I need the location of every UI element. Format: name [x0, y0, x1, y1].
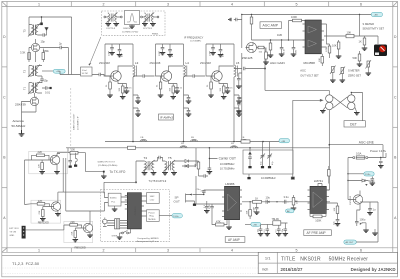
junction dots AGC rail	[241, 14, 360, 15]
svg-text:Arduino: Arduino	[133, 206, 137, 215]
resistor 22K (1b)	[39, 210, 44, 217]
svg-text:470u: 470u	[196, 189, 202, 191]
svg-text:10.6985MHz: 10.6985MHz	[261, 176, 276, 180]
resistor 100 gate	[257, 46, 266, 53]
coupling capacitor T4-T5	[158, 156, 166, 161]
wire det branch vertical	[195, 148, 197, 161]
capacitor 3u	[291, 40, 298, 56]
wire reg to supply pill	[159, 215, 172, 217]
resistor 10K boxed	[346, 30, 354, 37]
svg-text:Antenna: Antenna	[13, 119, 25, 123]
svg-text:10u: 10u	[266, 195, 271, 199]
trimmer pot (2)	[340, 67, 346, 83]
resistor 22K (2b)	[72, 231, 77, 238]
wire bias rail	[206, 44, 234, 76]
svg-text:10M15D: 10M15D	[123, 28, 132, 30]
ground T3	[45, 28, 49, 30]
wire vfo vertical	[24, 160, 26, 205]
junction dots power	[347, 157, 381, 181]
resistor 10K out	[247, 204, 252, 219]
ground detector right	[354, 108, 360, 115]
capacitor 0.022	[209, 203, 214, 211]
svg-text:Designed by JA2NKD: Designed by JA2NKD	[138, 237, 160, 240]
svg-text:3M: 3M	[296, 50, 298, 53]
supply decoupling column	[234, 80, 241, 142]
wire bias rail	[105, 44, 133, 76]
potentiometer VOL 10K	[291, 195, 299, 210]
svg-text:100u: 100u	[360, 218, 366, 222]
resistor 10K (IC left)	[332, 40, 341, 58]
net label pill +8B (RF)	[42, 69, 65, 73]
svg-text:L4: L4	[186, 61, 190, 65]
wires buffer2	[26, 211, 101, 240]
faint ruled lines below frame	[3, 268, 259, 273]
svg-text:AGC-LINE: AGC-LINE	[359, 140, 374, 144]
svg-text:2SC1815: 2SC1815	[350, 195, 352, 205]
svg-text:10K: 10K	[247, 210, 249, 214]
wire T4 input from PLL	[135, 161, 142, 183]
wires buffer1	[25, 192, 102, 218]
cross-quad wires	[329, 93, 362, 121]
svg-text:2SK125: 2SK125	[242, 56, 253, 60]
svg-text:FB801: FB801	[152, 33, 159, 35]
wires buffer	[25, 154, 61, 172]
svg-text:OUT VOLT SET: OUT VOLT SET	[300, 73, 319, 77]
ground carrier box left	[247, 174, 250, 179]
capacitor AGC source bypass 1	[236, 53, 242, 142]
capacitor 470u speaker out	[193, 189, 223, 195]
regulator U4 TA7805	[144, 210, 159, 222]
svg-text:(21.4MHz)-(23.4MHz): (21.4MHz)-(23.4MHz)	[98, 165, 118, 167]
svg-text:S METER: S METER	[348, 69, 360, 73]
svg-text:10K: 10K	[297, 200, 299, 204]
wire si5351 to mcu	[101, 192, 127, 211]
transformer T1	[23, 82, 43, 95]
svg-text:4: 4	[231, 248, 233, 252]
buffer subcircuit frame	[29, 151, 68, 174]
transformer T4	[142, 156, 158, 175]
capacitor 47P	[168, 44, 172, 54]
resistor 10K (below IC)	[319, 54, 324, 66]
svg-text:100P: 100P	[159, 50, 161, 56]
transistor Q2 2SK439 RF amp	[15, 93, 39, 107]
capacitor 220u	[365, 177, 375, 187]
svg-text:L3: L3	[135, 61, 139, 65]
resistor 100K feedback	[310, 210, 326, 223]
svg-text:S METER: S METER	[363, 22, 375, 26]
label box AGC AMP	[260, 22, 282, 29]
capacitor emitter	[226, 85, 230, 91]
svg-text:LM386: LM386	[225, 182, 235, 186]
svg-text:0.01: 0.01	[45, 91, 51, 95]
capacitor 100P	[211, 44, 215, 52]
grounds stage1	[107, 95, 113, 97]
supply decoupling column	[184, 80, 191, 142]
svg-text:FCZ73-9: FCZ73-9	[107, 28, 116, 30]
IF stage 3	[200, 44, 242, 142]
wire BFO injection	[291, 99, 323, 179]
zone numbers top	[38, 2, 362, 6]
svg-text:2SK439: 2SK439	[15, 103, 26, 107]
op-amp U1 MC4558	[303, 20, 325, 65]
svg-text:10.6985MHz: 10.6985MHz	[220, 162, 235, 166]
capacitor carrier bypass	[207, 166, 213, 174]
resistor 51	[109, 82, 112, 89]
transistor Q5 2SC2348	[212, 71, 222, 81]
net label pill +8B top right	[371, 12, 382, 16]
svg-text:FCZ73-9: FCZ73-9	[143, 28, 152, 30]
svg-text:3: 3	[167, 2, 169, 6]
connector J1 EXT VFO	[9, 226, 25, 239]
trimmer capacitor 47p (1)	[260, 152, 265, 168]
svg-text:50-54MHz: 50-54MHz	[12, 124, 26, 128]
capacitor 2p out	[40, 41, 69, 49]
resistor 680k	[42, 49, 49, 60]
junction dots top rail	[41, 16, 42, 17]
svg-text:Power 13.8v: Power 13.8v	[370, 149, 387, 153]
svg-text:L5: L5	[236, 61, 240, 65]
wires 1815	[348, 191, 378, 243]
transistor Q6 2SK125	[242, 42, 257, 60]
capacitor 0.01	[42, 86, 52, 94]
capacitor buffer decoupling a	[68, 154, 72, 168]
capacitor 10u coupling	[266, 195, 271, 204]
wire af out line	[242, 202, 330, 204]
ground buffer1	[40, 214, 61, 221]
decoupling terminal top	[40, 23, 43, 26]
junction dots AGC out	[270, 39, 289, 40]
resistor 300	[223, 86, 226, 93]
buffer2 frame	[64, 221, 93, 242]
node To TX-VFO	[86, 162, 126, 179]
wire 741 top	[318, 184, 330, 191]
svg-text:Designed by JA2NKD: Designed by JA2NKD	[351, 267, 396, 272]
trimmer potentiometer (S meter, red knob)	[374, 45, 387, 57]
svg-text:1: 1	[38, 248, 40, 252]
wire filter to IF strip	[92, 73, 110, 76]
capacitor 47u emitter	[125, 85, 129, 91]
resistor 120K	[326, 24, 331, 58]
svg-text:3: 3	[167, 248, 169, 252]
ground antenna	[19, 130, 25, 136]
svg-text:22K: 22K	[38, 150, 43, 154]
resistor 1K	[253, 196, 262, 203]
svg-text:15p: 15p	[44, 79, 49, 83]
svg-text:TITLE NKS01R 50MHz Recei: TITLE NKS01R 50MHz Receiver	[281, 256, 368, 262]
svg-text:100K: 100K	[315, 218, 321, 222]
svg-text:2016/10/27: 2016/10/27	[281, 267, 304, 272]
transistor Q8 (detector quad b)	[326, 102, 333, 109]
label box DET	[344, 121, 365, 127]
resistor (741 supply)	[328, 166, 331, 184]
wire AGC-LINE	[330, 145, 383, 158]
resistor 1K	[359, 36, 368, 50]
trimmer pot (AGC out)	[330, 66, 336, 83]
svg-text:T5: T5	[168, 156, 172, 160]
dashed detail box	[102, 11, 166, 35]
ground 1815 out	[363, 229, 378, 235]
capacitor 33u (reg out)	[282, 223, 288, 236]
svg-text:22K: 22K	[38, 199, 43, 203]
pin header P1	[107, 219, 127, 229]
svg-text:AGC AMP: AGC AMP	[263, 24, 279, 28]
net label pill +8B on bus	[279, 139, 290, 143]
section divider dashed + rotated notes	[71, 88, 80, 155]
svg-text:4: 4	[231, 2, 233, 6]
capacitor 100P	[161, 44, 165, 52]
svg-text:22K: 22K	[39, 210, 41, 214]
capacitor 15p (T3 tap)	[41, 28, 47, 44]
svg-text:50MHz RX UNIT: 50MHz RX UNIT	[74, 113, 76, 130]
ferrite bead FB (stage1)	[140, 137, 147, 142]
wire AGC supply rail	[242, 15, 371, 49]
capacitor 0.1 (reg)	[264, 224, 270, 236]
net label pill AF OUT	[344, 240, 378, 244]
wire switch lines down	[63, 158, 90, 211]
svg-text:+8B: +8B	[374, 15, 378, 17]
svg-text:100: 100	[71, 148, 76, 152]
resistor on bus (buffer feed)	[128, 146, 136, 149]
resistor 51	[159, 82, 162, 89]
trimmer pot (zero set)	[366, 60, 372, 75]
svg-text:100P: 100P	[109, 50, 111, 56]
svg-text:5: 5	[296, 248, 298, 252]
detail pointer arrow	[88, 37, 100, 66]
resistor 300	[122, 86, 125, 93]
wire antenna to RF amp	[22, 102, 37, 131]
svg-text:10K: 10K	[347, 30, 352, 34]
svg-text:22K: 22K	[72, 231, 74, 235]
capacitor 330P	[254, 204, 260, 214]
svg-text:22K: 22K	[39, 164, 41, 168]
wire top rail RF amp	[29, 17, 72, 75]
svg-text:Arrangement by R-san: Arrangement by R-san	[137, 240, 160, 243]
transistor Q14 (detector quad d)	[348, 102, 355, 109]
wire af input	[196, 176, 222, 204]
svg-text:LCD: LCD	[150, 200, 155, 202]
capacitor 15p (T2/T1)	[40, 76, 48, 83]
capacitor 47P	[118, 44, 122, 54]
svg-text:330P: 330P	[254, 206, 256, 212]
svg-text:10K: 10K	[334, 207, 336, 211]
svg-text:G: G	[102, 222, 104, 224]
ground buffer	[39, 172, 60, 174]
switch STEP	[112, 229, 131, 239]
resistor 10K (741 out)	[329, 203, 339, 218]
svg-text:ZERO SET: ZERO SET	[348, 73, 361, 77]
capacitor 100P	[110, 44, 114, 52]
diode D2	[182, 165, 196, 168]
potentiometer AGC GAIN 50K	[263, 48, 284, 66]
resistor 10K det	[195, 161, 200, 176]
net label pill (vol)	[286, 209, 295, 213]
svg-text:TX ON: TX ON	[9, 232, 16, 234]
microcontroller U3 Arduino	[125, 193, 144, 229]
svg-text:10.7MHz X-Filter: 10.7MHz X-Filter	[122, 30, 139, 33]
svg-text:50K: 50K	[353, 56, 358, 60]
svg-text:inch: inch	[262, 267, 268, 271]
svg-text:2: 2	[103, 248, 105, 252]
capacitor 0.1 (reg out)	[276, 225, 282, 236]
resistor 100K top	[289, 15, 306, 40]
wire carrier out node	[209, 148, 217, 166]
transistor Q12 2SC1815	[350, 193, 362, 207]
ground si5351	[112, 209, 118, 211]
fuse F1 0.5A	[353, 152, 368, 159]
svg-text:OUT: OUT	[174, 199, 181, 203]
label IF AMP x3 box	[159, 114, 174, 120]
zone letters left/right	[3, 35, 397, 220]
resistor 22K (2a)	[70, 220, 78, 226]
IF stage 2	[150, 44, 192, 142]
ferrite bead FB (rail3)	[231, 143, 238, 148]
ground detector left	[320, 107, 326, 113]
svg-text:120K: 120K	[326, 46, 328, 52]
resistor 22K (base)	[39, 163, 44, 170]
capacitor input (power)	[378, 161, 384, 168]
arrow carrier tap	[248, 152, 252, 169]
svg-text:IF AMPx3: IF AMPx3	[160, 115, 173, 119]
diode D3 protection	[348, 179, 375, 183]
svg-text:DET: DET	[350, 123, 357, 127]
svg-text:3.3K: 3.3K	[20, 51, 26, 55]
svg-text:10K: 10K	[332, 44, 337, 48]
wire xtal branch	[250, 142, 270, 153]
capacitor 10u (reg in)	[257, 224, 263, 236]
svg-text:T4: T4	[144, 156, 148, 160]
resistor drain load	[250, 17, 253, 40]
svg-text:+8B: +8B	[253, 224, 257, 226]
svg-text:+8B: +8B	[281, 141, 285, 143]
coupling capacitor stage1-2	[133, 74, 155, 77]
transformer T3	[23, 24, 41, 37]
svg-text:6: 6	[360, 248, 362, 252]
svg-text:SENSITIVITY SET: SENSITIVITY SET	[363, 27, 385, 31]
junction dots af	[249, 201, 277, 202]
svg-text:1602: 1602	[150, 196, 156, 198]
net label pill +8B (LM386)	[245, 222, 261, 226]
junction AGC tap	[329, 144, 331, 146]
boxed resistor on bus	[236, 140, 250, 143]
label box AF AMP	[225, 237, 245, 243]
svg-text:IF FREQUENCY: IF FREQUENCY	[184, 36, 204, 40]
IF stage 1	[99, 44, 141, 142]
transistor Q10 RB9120D	[50, 200, 61, 214]
svg-text:100P: 100P	[210, 50, 212, 56]
ferrite bead FB (stage2)	[191, 137, 198, 142]
wire IF out to detector	[234, 48, 329, 95]
carrier unit box	[243, 150, 293, 174]
oscillator module U2 Si5351	[108, 193, 121, 206]
svg-text:Carrier OUT: Carrier OUT	[219, 157, 236, 161]
resistor 100 (buffer out)	[70, 148, 78, 154]
grounds stage3	[208, 95, 214, 97]
label box AF PRE AMP	[304, 230, 332, 236]
bus 8V upper rail	[105, 141, 279, 143]
capacitor rail bypass	[229, 18, 242, 22]
wires power entry	[348, 153, 386, 200]
resistor 51	[210, 82, 213, 89]
svg-text:Si5351: Si5351	[110, 197, 118, 199]
svg-text:5: 5	[296, 2, 298, 6]
inductor L5	[234, 65, 236, 77]
capacitor buffer decoupling b	[74, 153, 77, 167]
svg-text:100K: 100K	[291, 15, 297, 19]
wire det to AF	[328, 110, 330, 186]
svg-text:10.745MHz: 10.745MHz	[190, 41, 201, 43]
audio amp U5 LM386	[222, 182, 242, 220]
transistor Q9 buffer	[49, 154, 60, 168]
svg-text:10.7915MHz: 10.7915MHz	[220, 167, 235, 171]
net label pill 13.8v (digital)	[172, 214, 182, 218]
svg-text:1K: 1K	[255, 196, 258, 200]
svg-text:AGC: AGC	[300, 69, 306, 73]
capacitor AGC source bypass 2	[236, 98, 242, 113]
transistor Q4 2SC2348	[161, 71, 171, 81]
supply decoupling column	[133, 80, 140, 142]
grounds stage2	[158, 95, 164, 97]
regulator U6 78L09	[261, 217, 288, 225]
wire AGC output	[252, 40, 306, 43]
display module LCD	[144, 193, 159, 204]
svg-text:13.8v: 13.8v	[173, 216, 179, 218]
svg-text:10.745MHz IF: 10.745MHz IF	[78, 116, 80, 130]
resistor 47K	[212, 211, 227, 227]
X-tal filter block box	[81, 67, 93, 76]
capacitor 3.3u	[282, 195, 289, 204]
capacitor 1u	[367, 208, 376, 215]
resistor 22K (bias)	[37, 150, 45, 156]
svg-text:GND: GND	[9, 235, 14, 237]
svg-text:2: 2	[103, 2, 105, 6]
tuned transformer FCZ73-9 (right)	[141, 13, 159, 31]
svg-text:TA7805: TA7805	[148, 218, 156, 221]
ferrite bead FB (stage3)	[241, 137, 248, 142]
svg-text:T1,2,3 FCZ-50: T1,2,3 FCZ-50	[12, 261, 40, 266]
wire S meter branch	[324, 15, 378, 55]
svg-text:13.8v: 13.8v	[365, 174, 371, 176]
capacitor 0.47u	[279, 40, 286, 56]
wire buffer output	[57, 148, 86, 172]
wire RF amp interstage	[29, 48, 43, 63]
wire bias rail	[156, 44, 184, 76]
svg-text:0.5A: 0.5A	[356, 152, 362, 156]
svg-text:LM741: LM741	[314, 179, 324, 183]
transformer T2	[23, 65, 43, 78]
capacitor 10u (741)	[334, 218, 341, 226]
svg-text:3.3u: 3.3u	[284, 195, 290, 199]
op-amp U7 LM741	[308, 179, 330, 214]
capacitor 100u	[355, 210, 366, 230]
svg-text:Power: Power	[149, 211, 155, 214]
svg-text:6: 6	[360, 2, 362, 6]
svg-text:X-tal: X-tal	[82, 69, 87, 72]
svg-text:AF OUT: AF OUT	[346, 241, 355, 244]
capacitor 0.1 in	[204, 204, 210, 213]
svg-text:EXT VFO: EXT VFO	[9, 228, 19, 230]
inductor L4	[184, 65, 186, 77]
resistor 22K (1a)	[37, 199, 45, 205]
diode D1	[178, 160, 196, 163]
svg-text:10K: 10K	[319, 58, 321, 62]
junction dot detector	[351, 92, 352, 93]
rotary encoder ENC1	[102, 218, 107, 227]
svg-text:15p: 15p	[41, 40, 46, 44]
zone numbers bottom	[38, 248, 362, 252]
svg-text:Reg.: Reg.	[150, 215, 155, 217]
svg-text:T4,T5:FCZ73-9: T4,T5:FCZ73-9	[149, 179, 167, 183]
capacitor 470u det	[199, 174, 209, 192]
